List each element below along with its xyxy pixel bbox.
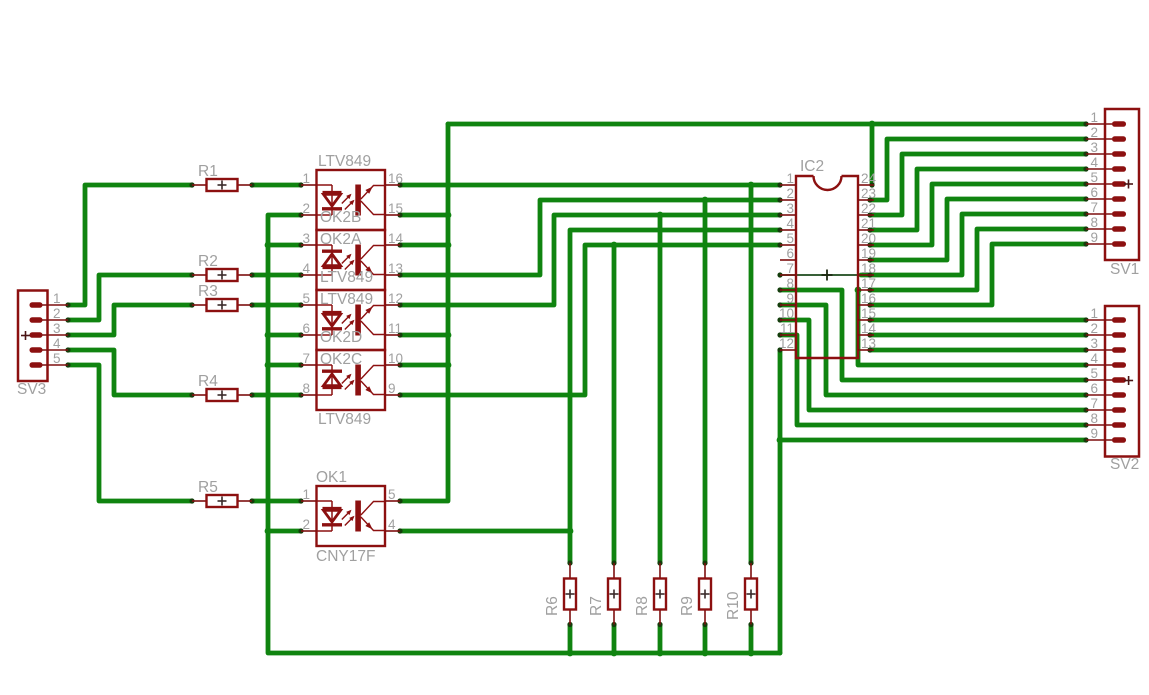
wire GND to SV2 pin9 — [780, 438, 1086, 443]
svg-text:SV1: SV1 — [1110, 261, 1139, 278]
svg-text:13: 13 — [861, 336, 876, 351]
svg-text:SV2: SV2 — [1110, 456, 1139, 473]
wire IC2 pin23 to SV1 pin2 — [870, 139, 1086, 200]
svg-text:R1: R1 — [198, 163, 218, 180]
svg-text:R9: R9 — [679, 596, 696, 616]
optocoupler OK2C — [301, 350, 403, 410]
svg-text:8: 8 — [786, 276, 794, 291]
wire VCC top to SV1 pin1 — [448, 122, 1086, 127]
svg-text:12: 12 — [388, 291, 403, 306]
resistor R2 — [192, 269, 252, 281]
optocoupler OK1 — [301, 486, 400, 546]
resistor R4 — [192, 389, 252, 401]
resistor R10 — [745, 563, 757, 625]
svg-text:R3: R3 — [198, 283, 218, 300]
label OK2A — [320, 231, 362, 248]
svg-text:R5: R5 — [198, 479, 218, 496]
svg-text:14: 14 — [861, 321, 877, 336]
wire IC2 pin9 to SV2 pin6 — [780, 305, 1086, 395]
label R10 — [725, 591, 742, 620]
optocoupler OK2D — [301, 290, 403, 350]
wire OK2A pin13 to IC2 pin2 — [400, 200, 780, 275]
wire R6 node to IC2 pin4 — [570, 230, 780, 563]
label R3 — [198, 283, 218, 300]
svg-text:6: 6 — [302, 321, 310, 336]
label R8 — [634, 596, 651, 616]
svg-text:11: 11 — [388, 321, 402, 336]
svg-text:OK2A: OK2A — [320, 231, 362, 248]
svg-text:10: 10 — [388, 351, 403, 366]
svg-text:9: 9 — [1090, 230, 1098, 245]
svg-text:2: 2 — [786, 186, 794, 201]
svg-text:13: 13 — [388, 261, 403, 276]
connector SV1 — [1086, 109, 1139, 260]
wire SV3 pin3 to R3 — [68, 305, 192, 335]
label SV1 — [1110, 261, 1139, 278]
svg-text:9: 9 — [388, 381, 396, 396]
svg-text:17: 17 — [861, 276, 876, 291]
svg-text:3: 3 — [786, 201, 794, 216]
wire bus to OK2A pin3 — [268, 243, 301, 248]
wire IC2 pin19 to SV1 pin6 — [870, 199, 1086, 260]
svg-text:18: 18 — [861, 261, 876, 276]
svg-text:SV3: SV3 — [17, 381, 46, 398]
label LTV849 cell3 — [320, 291, 373, 308]
wire IC2 pin8 to SV2 pin5 — [780, 290, 1086, 380]
wire R10 top — [749, 185, 754, 563]
wire R4 to OK2C pin8 — [252, 393, 301, 398]
svg-text:12: 12 — [779, 336, 794, 351]
svg-text:R8: R8 — [634, 596, 651, 616]
connector SV2 — [1086, 306, 1139, 457]
wire R7 top — [612, 245, 617, 563]
label LTV849 cell2 — [320, 269, 373, 286]
wire OK2A pin14 to rail — [400, 243, 448, 248]
svg-text:CNY17F: CNY17F — [316, 548, 375, 565]
svg-text:R2: R2 — [198, 253, 218, 270]
label IC2 — [800, 158, 824, 175]
wire IC2 pin10 to SV2 pin7 — [780, 320, 1086, 410]
label OK2B — [320, 209, 361, 226]
svg-text:21: 21 — [861, 216, 876, 231]
wire SV3 pin4 to R4 — [68, 350, 192, 395]
svg-text:7: 7 — [1090, 396, 1098, 411]
svg-text:7: 7 — [786, 261, 794, 276]
wire R8 bottom — [658, 625, 663, 654]
svg-text:11: 11 — [780, 321, 794, 336]
svg-text:6: 6 — [786, 246, 794, 261]
svg-text:9: 9 — [786, 291, 794, 306]
wire IC2 pin17 to SV2 pin4 — [858, 290, 1086, 365]
svg-text:8: 8 — [1090, 411, 1098, 426]
label R9 — [679, 596, 696, 616]
svg-text:19: 19 — [861, 246, 876, 261]
label OK2C — [320, 351, 362, 368]
wire R5 to OK1 pin1 — [252, 499, 301, 504]
svg-text:IC2: IC2 — [800, 158, 824, 175]
svg-text:1: 1 — [302, 171, 310, 186]
wire IC2 pin11 to SV2 pin8 — [780, 335, 1086, 425]
resistor R5 — [192, 495, 252, 507]
svg-text:3: 3 — [53, 321, 61, 336]
svg-text:4: 4 — [786, 216, 794, 231]
svg-text:5: 5 — [1090, 366, 1098, 381]
svg-text:1: 1 — [786, 171, 794, 186]
svg-text:3: 3 — [1090, 140, 1098, 155]
label R7 — [588, 596, 605, 616]
svg-text:23: 23 — [861, 186, 876, 201]
label LTV849 bottom — [318, 411, 371, 428]
svg-text:7: 7 — [1090, 200, 1098, 215]
svg-text:8: 8 — [1090, 215, 1098, 230]
svg-text:9: 9 — [1090, 426, 1098, 441]
ic IC2 — [779, 171, 877, 358]
wire GND left bus — [268, 215, 780, 653]
label SV3 — [17, 381, 46, 398]
wire R2 to OK2A pin4 — [252, 273, 301, 278]
svg-text:LTV849: LTV849 — [318, 153, 371, 170]
svg-text:LTV849: LTV849 — [320, 269, 373, 286]
wire OK2C pin9 to IC2 pin5 — [400, 245, 780, 395]
svg-text:R10: R10 — [725, 591, 742, 620]
wire SV3 pin2 to R2 — [68, 275, 192, 320]
svg-text:5: 5 — [388, 487, 396, 502]
wire OK2D pin12 to IC2 pin3 — [400, 215, 780, 305]
label R4 — [198, 373, 218, 390]
label R1 — [198, 163, 218, 180]
svg-text:24: 24 — [861, 171, 877, 186]
svg-text:16: 16 — [388, 171, 403, 186]
wire R9 bottom — [703, 625, 708, 654]
label R5 — [198, 479, 218, 496]
svg-text:R7: R7 — [588, 596, 605, 616]
label R2 — [198, 253, 218, 270]
svg-text:15: 15 — [388, 201, 403, 216]
svg-text:OK2C: OK2C — [320, 351, 362, 368]
svg-text:5: 5 — [786, 231, 794, 246]
svg-text:5: 5 — [1090, 170, 1098, 185]
wire IC2 pin20 to SV1 pin5 — [870, 184, 1086, 245]
svg-text:4: 4 — [1090, 351, 1098, 366]
svg-text:1: 1 — [1090, 306, 1098, 321]
svg-text:4: 4 — [388, 517, 396, 532]
svg-text:5: 5 — [53, 351, 61, 366]
wire SV3 pin5 to R5 — [68, 365, 192, 501]
svg-text:LTV849: LTV849 — [318, 411, 371, 428]
label R6 — [544, 596, 561, 616]
svg-text:OK1: OK1 — [316, 469, 347, 486]
svg-text:1: 1 — [302, 487, 310, 502]
svg-text:2: 2 — [302, 517, 310, 532]
svg-text:1: 1 — [53, 291, 61, 306]
svg-text:16: 16 — [861, 291, 876, 306]
wire IC2 pin13 to SV2 pin3 — [870, 348, 1086, 353]
svg-text:3: 3 — [1090, 336, 1098, 351]
svg-text:2: 2 — [302, 201, 310, 216]
label CNY17F — [316, 548, 375, 565]
label SV2 — [1110, 456, 1139, 473]
wire IC2 pin24 riser — [870, 124, 875, 185]
wire OK2D pin11 to rail — [400, 333, 448, 338]
svg-text:OK2B: OK2B — [320, 209, 361, 226]
connector SV3 — [18, 291, 68, 382]
svg-text:4: 4 — [1090, 155, 1098, 170]
wire bus to OK2C pin7 — [268, 363, 301, 368]
wire R1 to OK2B pin1 — [252, 183, 301, 188]
wire IC2 pin16 to SV1 pin9 — [870, 244, 1086, 305]
svg-text:LTV849: LTV849 — [320, 291, 373, 308]
svg-text:3: 3 — [302, 231, 310, 246]
svg-text:OK2D: OK2D — [320, 329, 362, 346]
wire IC2 pin14 to SV2 pin2 — [870, 333, 1086, 338]
optocoupler OK2B — [301, 170, 403, 230]
wire IC2 pin7 to pin18 (thin) — [780, 274, 858, 276]
wire R6 bottom — [568, 625, 573, 654]
wire IC2 pin21 to SV1 pin4 — [870, 169, 1086, 230]
wire R3 to OK2D pin5 — [252, 303, 301, 308]
wire R8 top — [658, 215, 663, 563]
pin connection dots — [65, 121, 1088, 627]
svg-text:1: 1 — [1090, 110, 1098, 125]
svg-text:R6: R6 — [544, 596, 561, 616]
wire R7 bottom — [612, 625, 617, 654]
resistor R6 — [564, 563, 576, 625]
svg-text:7: 7 — [302, 351, 310, 366]
svg-text:22: 22 — [861, 201, 876, 216]
svg-text:8: 8 — [302, 381, 310, 396]
svg-text:14: 14 — [388, 231, 404, 246]
svg-text:15: 15 — [861, 306, 876, 321]
resistor R1 — [192, 179, 252, 191]
svg-text:5: 5 — [302, 291, 310, 306]
svg-text:R4: R4 — [198, 373, 218, 390]
label LTV849 top — [318, 153, 371, 170]
wire R9 top — [703, 200, 708, 563]
svg-text:2: 2 — [1090, 321, 1098, 336]
wire SV3 pin1 to R1 — [68, 185, 192, 305]
svg-text:6: 6 — [1090, 185, 1098, 200]
wire OK2C pin10 to rail — [400, 363, 448, 368]
wire OK1 pin4 to R6 node — [400, 529, 570, 534]
wire IC2 pin12 GND drop — [778, 350, 783, 653]
resistor R7 — [608, 563, 620, 625]
resistor R9 — [699, 563, 711, 625]
resistor R8 — [654, 563, 666, 625]
svg-text:20: 20 — [861, 231, 876, 246]
optocoupler OK2A — [301, 230, 404, 290]
label OK1 — [316, 469, 347, 486]
wire bus to OK2D pin6 — [268, 333, 301, 338]
svg-text:2: 2 — [1090, 125, 1098, 140]
svg-text:4: 4 — [302, 261, 310, 276]
wire VCC rail vertical — [400, 124, 448, 501]
wire IC2 pin18 to SV1 pin7 — [861, 214, 1086, 275]
svg-text:2: 2 — [53, 306, 61, 321]
svg-text:6: 6 — [1090, 381, 1098, 396]
label OK2D — [320, 329, 362, 346]
wire IC2 pin15 to SV2 pin1 — [870, 318, 1086, 323]
wire IC2 pin22 to SV1 pin3 — [870, 154, 1086, 215]
svg-text:4: 4 — [53, 336, 61, 351]
wire OK2B pin15 to rail — [400, 213, 448, 218]
wire bus to OK1 pin2 — [268, 529, 301, 534]
svg-text:10: 10 — [779, 306, 794, 321]
wire OK2B pin16 to IC2 pin1 — [400, 183, 780, 188]
wire R10 bottom — [749, 625, 754, 654]
wire IC2 pin17 to SV1 pin8 — [870, 229, 1086, 290]
resistor R3 — [192, 299, 252, 311]
